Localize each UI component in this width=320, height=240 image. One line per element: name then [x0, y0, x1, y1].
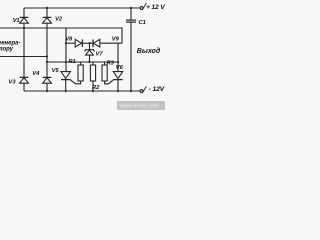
wire R1 bottom to V5 gate [70, 80, 80, 84]
wire R2 bottom to rail [92, 81, 94, 91]
wire V9 anode [100, 42, 122, 44]
svg-text:R3: R3 [107, 61, 115, 67]
svg-text:+ 12 V: + 12 V [146, 4, 165, 11]
svg-text:V3: V3 [9, 80, 17, 86]
svg-text:Выход: Выход [137, 47, 161, 55]
node bottom rail R2 [92, 90, 94, 92]
node divider center [88, 61, 90, 63]
svg-text:R2: R2 [92, 85, 100, 91]
diode V2 [43, 18, 52, 23]
node top rail C1 [130, 7, 132, 9]
node AC1-V1V3 junction [23, 27, 25, 29]
node divider wire tap on V2/V4 string [46, 61, 48, 63]
thyristor V6 [113, 72, 122, 79]
svg-text:V7: V7 [96, 52, 104, 58]
svg-text:V6: V6 [116, 65, 124, 71]
svg-text:V9: V9 [112, 37, 120, 43]
svg-text:V1: V1 [13, 18, 20, 24]
zener V7 [86, 50, 94, 55]
wire V1/V3 string vertical [23, 8, 25, 18]
thyristor V5 [61, 72, 70, 79]
wire R1 stub top [80, 62, 82, 65]
node V8-V9 cathodes [88, 42, 90, 44]
wire bottom -rail [24, 90, 140, 92]
svg-text:V8: V8 [65, 36, 73, 42]
diode V4 [43, 78, 52, 83]
svg-text:V2: V2 [55, 17, 63, 23]
node divider left [65, 61, 67, 63]
node bottom rail V4 [46, 90, 48, 92]
node AC2-V2V4 junction [46, 55, 48, 57]
svg-text:V4: V4 [32, 71, 40, 77]
wire zener stub [89, 43, 91, 50]
resistor R2 [90, 65, 95, 81]
resistor R3 [102, 65, 107, 81]
diode V1 [20, 18, 29, 23]
svg-text:тору: тору [0, 46, 14, 52]
diode V8 [75, 39, 81, 47]
wire R3 bottom to V6 gate [105, 80, 114, 84]
wire V8-V9 cathode node [82, 42, 93, 44]
svg-text:V5: V5 [52, 68, 60, 74]
wire thyristor V6 branch vertical [117, 43, 119, 71]
wire R3 stub top [104, 62, 106, 65]
wire top +rail [24, 7, 140, 9]
terminal -12V [140, 90, 143, 93]
diode V3 [20, 78, 29, 83]
wire AC1 line [0, 28, 122, 43]
svg-text:R1: R1 [68, 59, 75, 65]
wire V2/V4 string vertical [46, 8, 48, 18]
node bottom rail C1 [130, 90, 132, 92]
wire thyristor V5 branch vertical [65, 28, 67, 72]
node bottom rail V6 [117, 90, 119, 92]
svg-text:C1: C1 [139, 20, 146, 26]
resistor R1 [78, 65, 83, 81]
wire V8 anode [66, 42, 75, 44]
terminal +12V [140, 7, 143, 10]
node V8 anode tap [65, 42, 67, 44]
node divider right [117, 61, 119, 63]
svg-text:- 12V: - 12V [149, 86, 165, 93]
watermark box [117, 101, 165, 110]
capacitor C1 [126, 19, 136, 21]
wire divider top rail [47, 61, 118, 63]
diode V9 [93, 39, 99, 47]
svg-text:www.moto.com: www.moto.com [119, 104, 160, 110]
wire C1 branch [130, 8, 132, 20]
wire AC2 line [0, 56, 47, 58]
node top rail V2 [46, 7, 48, 9]
node bottom rail V5 [65, 90, 67, 92]
wire R2 stub top [92, 62, 94, 65]
